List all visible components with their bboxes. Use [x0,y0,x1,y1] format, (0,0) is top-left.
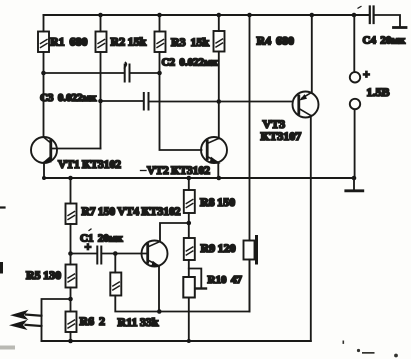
node R11 top junction [113,251,118,256]
wire phone element bottom lead [249,260,251,312]
wire VT2 base riser [160,73,202,150]
node R5 R6 output junction [68,297,73,302]
svg-text:R11 33k: R11 33k [118,315,159,329]
capacitor C2 [125,65,130,82]
ground top right [394,26,407,29]
resistor R2 [96,32,107,53]
node VT2 collector line2 junction [217,99,222,104]
svg-text:R8 150: R8 150 [200,195,235,209]
resistor R4 [214,31,225,52]
node battery top junction [352,13,357,18]
node R10 bottom rail [187,339,191,343]
ground common right [346,178,363,191]
node VT2 emitter rail [217,176,222,181]
noise left edge dash lower [0,264,3,273]
wire VT3 emitter lead [311,15,313,93]
wire battery positive lead [353,15,355,72]
wire line2 left segment [101,100,144,102]
svg-text:VT1 КТ3102: VT1 КТ3102 [58,159,121,171]
wire R5 bottom lead [70,288,72,312]
wire VT1 emitter to rail [43,163,45,179]
svg-text:R6 2: R6 2 [80,314,105,328]
transistor VT1 [31,137,57,163]
wire top power rail [44,14,370,16]
wire R1 bottom lead [43,52,45,73]
svg-text:R9 120: R9 120 [201,241,236,255]
resistor R9 [184,238,195,260]
wire VT2 emitter to rail [217,163,219,179]
node VT1 emitter rail corner [42,176,46,180]
wire R3 bottom lead [159,52,161,73]
svg-text:R3 15k: R3 15k [171,35,209,49]
capacitor C1 [97,247,101,264]
wire R11 top lead [114,254,116,273]
node R3 bottom junction [157,71,162,76]
node R1-C2 junction [41,71,46,76]
svg-text:C3 0.022мк: C3 0.022мк [40,92,97,104]
resistor R6 [66,312,77,333]
svg-text:R1 680: R1 680 [50,35,87,49]
wire line1 left segment [44,72,125,74]
node BF line top [247,13,252,18]
transistor VT4 [142,241,168,267]
node R8 top [187,176,192,181]
resistor R10 trimmer [183,277,195,298]
wire R3 top lead [159,15,161,32]
capacitor C4 [370,7,374,24]
node R4 top [217,13,222,18]
wire C4 to ground [374,15,400,27]
svg-text:1.5В: 1.5В [367,85,390,99]
noise tick top right [358,6,361,8]
noise comma mark [125,63,127,69]
svg-text:R5 130: R5 130 [26,268,61,282]
wire VT2 collector riser [218,102,220,139]
node VT3 emitter rail junction [310,13,315,18]
resistor R5 [66,265,77,288]
svg-text:R7 150 VТ4 КТ3102: R7 150 VТ4 КТ3102 [82,206,181,218]
output arrow upper [10,310,42,320]
wire VT4 collector up and right [160,223,189,242]
noise accent over C1 [89,229,91,231]
wire R5 top lead [70,254,72,265]
resistor R11 [110,273,121,296]
resistor R7 [66,204,77,225]
resistor R1 [38,32,49,53]
wire R6 bottom lead [70,332,72,341]
node C1 left junction [68,251,73,256]
wire VT3 collector down to bottom rail [310,116,312,342]
resistor R3 [155,32,166,53]
phone capsule BF1 [244,237,257,264]
node R2 top [98,13,103,18]
svg-text:C4 20мк: C4 20мк [363,35,406,47]
wire line1 right segment [130,72,160,74]
svg-text:VT2 КТ3102: VT2 КТ3102 [147,165,210,177]
wire R11 bottom and line A [115,260,249,312]
terminal battery plus [350,72,360,82]
wiper contact bar R10 [196,287,206,289]
wire R8 bottom lead [188,213,190,238]
noise bottom right marks [343,341,398,358]
svg-text:КТ3107: КТ3107 [261,129,302,143]
wire C1 left lead [71,253,97,255]
capacitor C3 [144,93,149,110]
node emitter rail right end [352,176,357,181]
wire R9 bottom lead [188,260,190,277]
wire VT1 base riser [100,101,102,149]
wire battery negative lead [354,109,356,178]
wire R10 bottom lead to bottom rail [188,298,190,342]
wire bottom rail [42,340,311,342]
svg-text:C2 0.022мк: C2 0.022мк [162,57,219,69]
terminal battery minus [350,99,360,109]
wire R2 bottom lead crossing line1 [100,52,102,101]
wire VT1 collector riser [43,73,45,137]
node R6 bottom rail [68,339,73,344]
noise bottom left smudge [0,346,13,350]
wire output branch left [42,299,71,341]
svg-text:+: + [85,240,92,254]
noise left edge dash upper [0,206,5,208]
node R8-R9-VT4 junction [187,221,192,226]
node VT4 emitter lineA junction [157,309,162,314]
wire R10 wiper hook [189,269,202,289]
node R2-line2 junction [98,99,103,104]
wire R4 top lead [218,15,220,31]
wire R1 top lead [43,15,45,32]
node R7 top [68,176,73,181]
wire phone element vertical line [249,15,251,241]
wire C1 right lead to VT4 base [102,253,148,255]
transistor VT2 [201,137,227,164]
noise dash before VT2 [141,170,147,172]
wire line2 right segment [149,101,293,103]
resistor R8 [184,190,195,213]
wire R2 top lead [100,15,102,32]
wire R8 top lead [188,178,190,190]
svg-text:R4 680: R4 680 [257,34,294,48]
wire R4 bottom lead [218,52,220,102]
wire R7 bottom lead [70,224,72,254]
wire VT4 emitter down [158,266,160,312]
node R3 top [157,13,162,18]
wire VT1 base lead [52,148,101,150]
svg-text:R2 15k: R2 15k [111,35,147,49]
output arrow lower [9,320,42,330]
wire R7 top lead [70,178,72,204]
svg-text:+: + [363,67,370,81]
wire emitter rail [44,177,354,179]
svg-text:R10 47: R10 47 [208,274,243,286]
transistor VT3 [293,92,319,118]
